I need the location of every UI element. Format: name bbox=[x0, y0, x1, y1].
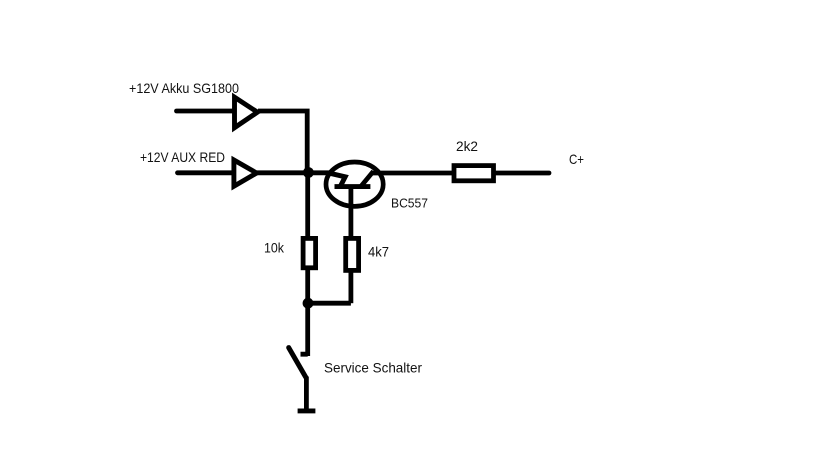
wire transistor base to resistor 4k7 bbox=[348, 188, 353, 237]
svg-text:10k: 10k bbox=[264, 240, 285, 256]
svg-text:2k2: 2k2 bbox=[456, 138, 478, 154]
wire AUX input lead bbox=[178, 170, 234, 175]
resistor 10k bbox=[303, 238, 316, 267]
switch lever (Service Schalter) bbox=[289, 348, 306, 378]
transistor Q1 BC557 body circle bbox=[326, 162, 383, 206]
svg-text:+12V AUX RED: +12V AUX RED bbox=[140, 149, 225, 165]
terminal end bar bbox=[298, 408, 316, 413]
transistor Q1 collector diagonal bbox=[361, 171, 373, 186]
resistor 4k7 bbox=[346, 238, 359, 270]
wire Akku input lead bbox=[177, 109, 235, 114]
wire 2k2 to C+ bbox=[496, 171, 549, 176]
transistor Q1 emitter with arrow bbox=[330, 173, 346, 186]
resistor 2k2 bbox=[454, 166, 494, 181]
transistor Q1 base bar bbox=[335, 184, 371, 189]
svg-text:Service Schalter: Service Schalter bbox=[324, 359, 422, 375]
svg-text:4k7: 4k7 bbox=[368, 244, 389, 260]
wire 4k7 down bbox=[348, 271, 353, 303]
input arrow symbol (Akku) bbox=[235, 97, 258, 128]
svg-text:C+: C+ bbox=[569, 151, 584, 167]
wire junction down to switch contact bbox=[301, 305, 308, 356]
svg-text:+12V Akku SG1800: +12V Akku SG1800 bbox=[129, 80, 239, 96]
wire collector to resistor 2k2 bbox=[372, 171, 453, 176]
svg-text:BC557: BC557 bbox=[391, 196, 428, 211]
node lower junction bbox=[303, 298, 314, 309]
wire from AUX arrow to transistor bbox=[257, 170, 334, 175]
wire 10k to lower junction bbox=[305, 269, 310, 303]
node junction (base rail) bbox=[303, 167, 314, 178]
wire bottom horizontal to junction bbox=[308, 301, 351, 306]
wire from Akku arrow to node bbox=[258, 111, 307, 172]
wire switch to terminal bbox=[304, 377, 309, 410]
wire node to resistor 10k bbox=[305, 174, 310, 237]
input arrow symbol (AUX) bbox=[234, 160, 257, 186]
